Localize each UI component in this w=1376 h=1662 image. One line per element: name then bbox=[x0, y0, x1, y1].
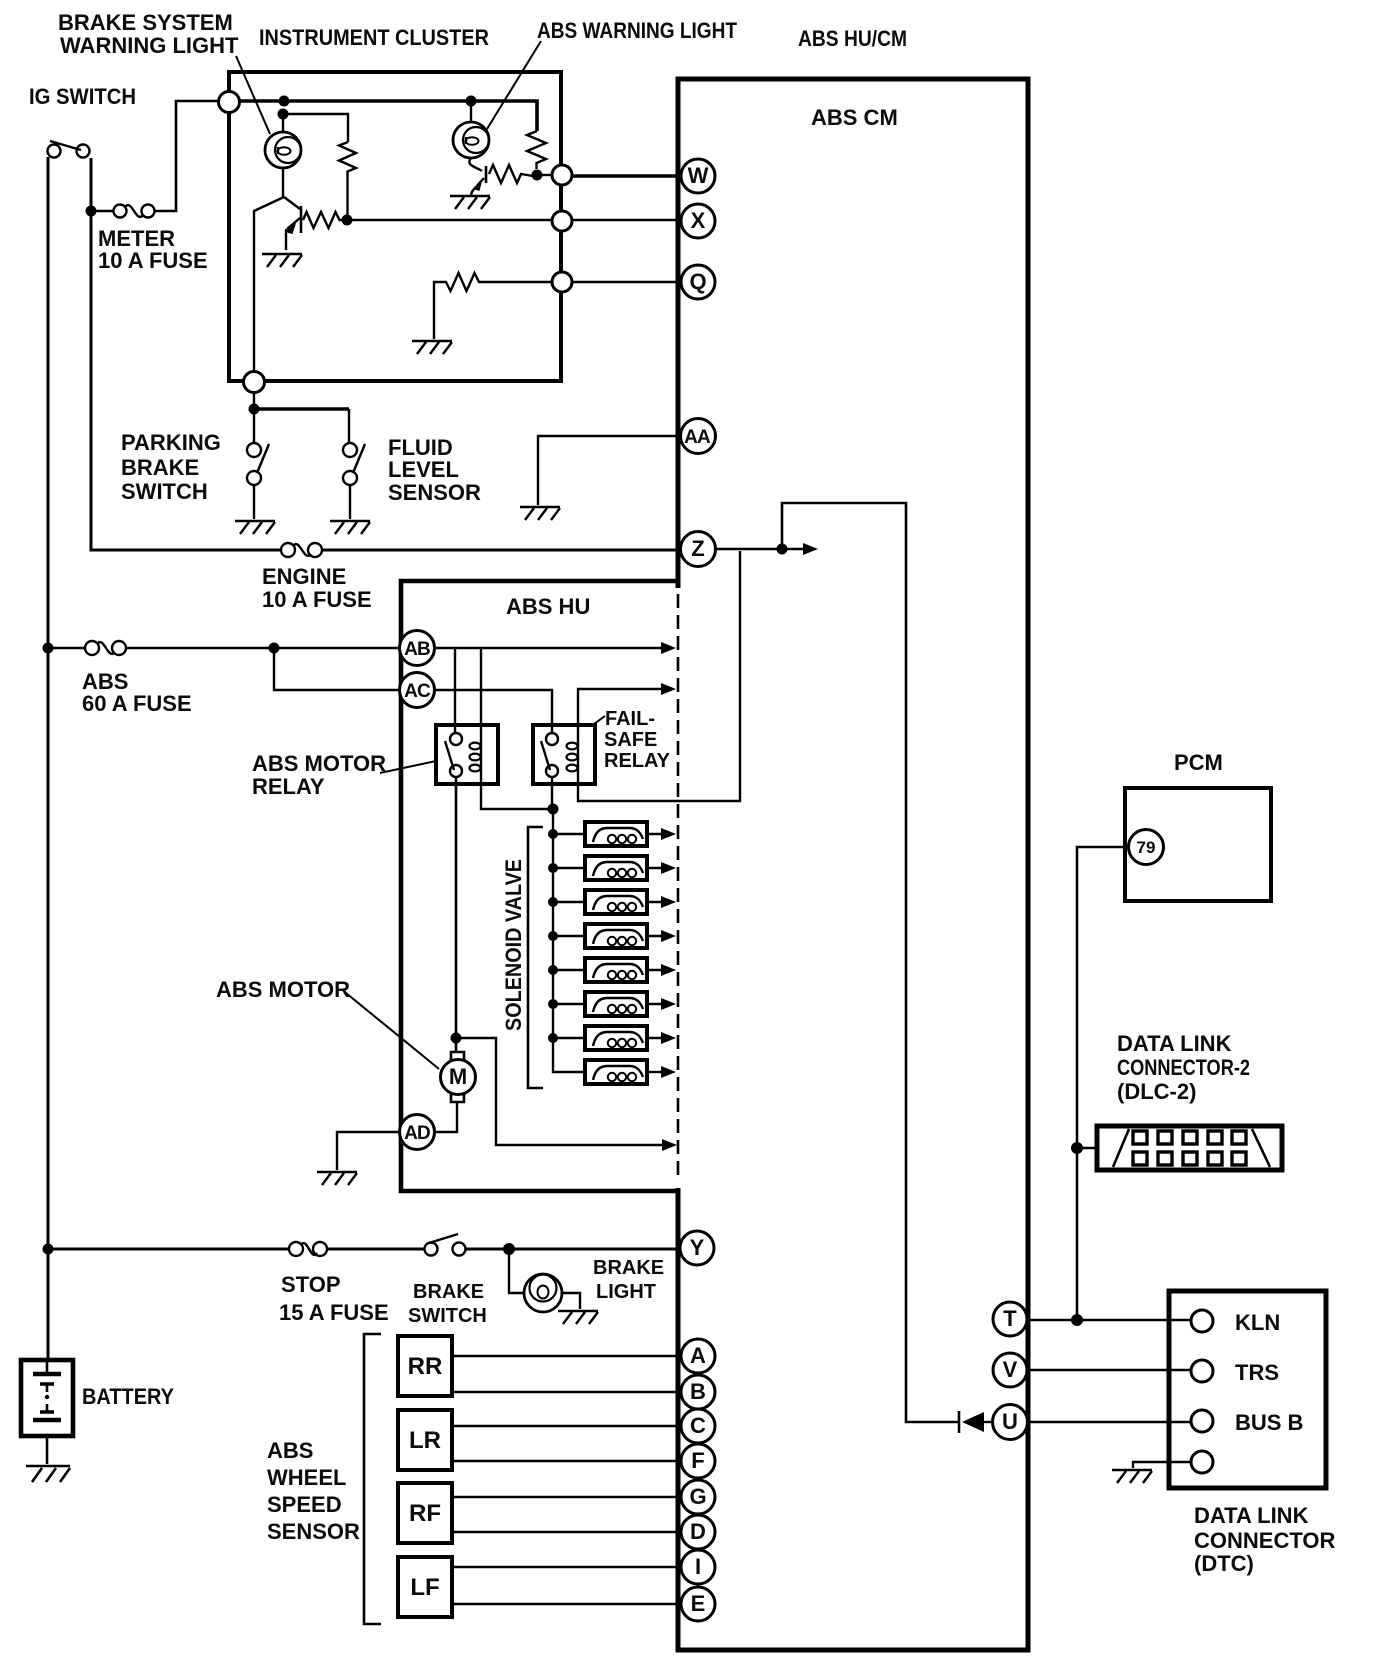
terminal Z bbox=[681, 532, 716, 567]
diode to U bbox=[958, 1411, 961, 1433]
boundary dashed ABS HU/CM bbox=[677, 594, 680, 1180]
node stop fuse junction bbox=[43, 1244, 54, 1255]
terminal circle cluster feed bbox=[219, 92, 240, 113]
svg-text:D: D bbox=[690, 1519, 706, 1544]
svg-text:ABS MOTOR: ABS MOTOR bbox=[252, 751, 386, 776]
svg-text:ABS MOTOR: ABS MOTOR bbox=[216, 977, 350, 1002]
solenoid valve 1 bbox=[548, 829, 558, 839]
node X wire junction bbox=[342, 215, 353, 226]
engine 10A fuse bbox=[281, 543, 295, 557]
svg-text:RELAY: RELAY bbox=[604, 750, 671, 772]
ground AD bbox=[317, 1172, 357, 1185]
svg-text:STOP: STOP bbox=[281, 1272, 341, 1297]
stop 15A fuse bbox=[289, 1242, 303, 1256]
svg-text:BRAKE: BRAKE bbox=[413, 1281, 484, 1303]
terminal circle cluster X bbox=[552, 211, 572, 231]
pointer ABS motor bbox=[346, 993, 439, 1069]
wire Z junction up and over to U diode bbox=[782, 503, 959, 1422]
wire T to KLN bbox=[1027, 1319, 1191, 1321]
svg-text:PARKING: PARKING bbox=[121, 430, 221, 455]
wire to left shunt resistor bbox=[283, 114, 348, 142]
data link connector DTC box bbox=[1169, 1291, 1326, 1488]
svg-text:TRS: TRS bbox=[1235, 1360, 1279, 1385]
node ABS 60A junction bbox=[43, 643, 54, 654]
svg-text:LF: LF bbox=[410, 1574, 439, 1601]
svg-text:10 A FUSE: 10 A FUSE bbox=[262, 587, 372, 612]
meter 10A fuse bbox=[86, 206, 97, 217]
svg-text:10 A FUSE: 10 A FUSE bbox=[98, 248, 208, 273]
svg-text:LIGHT: LIGHT bbox=[596, 1281, 656, 1303]
ABS motor relay bbox=[436, 725, 498, 784]
wire motor branch to arrow bbox=[456, 1038, 663, 1145]
svg-text:Y: Y bbox=[690, 1235, 705, 1260]
terminal 79 bbox=[1129, 830, 1164, 865]
wire relay1 coil return bbox=[481, 784, 553, 809]
terminal V bbox=[993, 1353, 1027, 1387]
svg-text:W: W bbox=[688, 163, 709, 188]
svg-text:BRAKE SYSTEM: BRAKE SYSTEM bbox=[58, 10, 233, 35]
terminal circle cluster Q bbox=[552, 272, 572, 292]
svg-text:ABS WARNING LIGHT: ABS WARNING LIGHT bbox=[537, 18, 737, 43]
svg-text:RELAY: RELAY bbox=[252, 774, 325, 799]
node motor branch bbox=[451, 1033, 462, 1044]
terminal AC bbox=[400, 673, 435, 708]
ground AA bbox=[520, 507, 560, 520]
terminal circle cluster W bbox=[552, 165, 572, 185]
ground DTC bbox=[1112, 1470, 1152, 1483]
node T wire junction bbox=[1071, 1314, 1083, 1326]
bracket solenoid valves bbox=[528, 827, 543, 1088]
terminal A bbox=[681, 1339, 715, 1373]
svg-text:AC: AC bbox=[404, 681, 431, 702]
node DLC-2 junction bbox=[1071, 1142, 1083, 1154]
terminal X bbox=[681, 204, 715, 238]
wire X line inside cluster bbox=[347, 219, 681, 221]
svg-text:ABS: ABS bbox=[267, 1438, 313, 1463]
wire solenoid bus bbox=[553, 809, 585, 1072]
wire IG rail to engine fuse bbox=[91, 158, 681, 550]
ground transistor emitter bbox=[262, 254, 302, 267]
terminal G bbox=[681, 1480, 715, 1514]
wheel sensor LR bbox=[398, 1410, 452, 1470]
terminal I bbox=[681, 1550, 715, 1584]
wire relay1 switch pin bbox=[454, 648, 456, 733]
wheel sensor LF bbox=[398, 1557, 452, 1617]
pin TRS bbox=[1191, 1360, 1213, 1382]
svg-text:U: U bbox=[1002, 1409, 1018, 1434]
instrument cluster box bbox=[229, 72, 561, 381]
wire LF to I E bbox=[452, 1567, 681, 1604]
wire junction to DLC-2 bbox=[1077, 1147, 1097, 1150]
svg-text:X: X bbox=[691, 208, 706, 233]
wire Z to junction with arrow bbox=[716, 548, 806, 551]
ground parking brake switch bbox=[235, 521, 275, 534]
resistor left shunt bbox=[339, 142, 356, 217]
svg-text:V: V bbox=[1003, 1357, 1018, 1382]
resistor right shunt bbox=[527, 131, 546, 169]
svg-text:CONNECTOR: CONNECTOR bbox=[1194, 1528, 1335, 1553]
terminal AB bbox=[400, 631, 435, 666]
wire V to TRS bbox=[1027, 1369, 1191, 1371]
svg-text:60 A FUSE: 60 A FUSE bbox=[82, 691, 192, 716]
wire relay1 switch to motor bbox=[455, 777, 458, 1052]
pin ground bbox=[1191, 1451, 1213, 1473]
pin KLN bbox=[1191, 1310, 1213, 1332]
wire battery rail bbox=[47, 157, 50, 1360]
svg-text:M: M bbox=[449, 1064, 467, 1089]
PCM box bbox=[1125, 788, 1271, 901]
ground Q resistor bbox=[412, 341, 452, 354]
wire AC inside HU bbox=[435, 690, 552, 733]
resistor ABS lamp base bbox=[489, 165, 533, 183]
battery bbox=[21, 1360, 73, 1436]
svg-text:I: I bbox=[695, 1554, 701, 1579]
solenoid valve 4 bbox=[548, 931, 558, 941]
lamp brake light bbox=[524, 1274, 562, 1312]
svg-text:BRAKE: BRAKE bbox=[121, 455, 199, 480]
svg-text:BUS B: BUS B bbox=[1235, 1410, 1303, 1435]
wire AB inside HU with arrow bbox=[435, 647, 661, 650]
wire Q to ABS CM bbox=[572, 281, 681, 283]
svg-text:SENSOR: SENSOR bbox=[388, 480, 481, 505]
svg-text:AB: AB bbox=[404, 639, 430, 660]
svg-text:AA: AA bbox=[684, 427, 711, 448]
terminal circle cluster bottom bbox=[244, 372, 265, 393]
ABS HU box bbox=[401, 581, 676, 1191]
svg-text:C: C bbox=[690, 1413, 706, 1438]
node ABS lamp junction bbox=[532, 170, 543, 181]
terminal B bbox=[681, 1375, 715, 1409]
solenoid valve 3 bbox=[548, 897, 558, 907]
wire stop fuse brake switch Y bbox=[48, 1248, 681, 1251]
svg-text:PCM: PCM bbox=[1174, 750, 1223, 775]
node brake light junction bbox=[503, 1243, 515, 1255]
fail-safe relay bbox=[533, 725, 595, 784]
svg-text:DATA LINK: DATA LINK bbox=[1117, 1031, 1232, 1056]
svg-text:WHEEL: WHEEL bbox=[267, 1465, 346, 1490]
svg-text:Q: Q bbox=[689, 269, 706, 294]
svg-text:Z: Z bbox=[691, 536, 704, 561]
wire RR to A B bbox=[452, 1356, 681, 1392]
wire cluster supply bus bbox=[239, 101, 537, 131]
node AC branch junction bbox=[269, 643, 280, 654]
terminal W bbox=[681, 159, 715, 193]
terminal E bbox=[681, 1587, 715, 1621]
lamp ABS warning light bbox=[466, 96, 477, 107]
node parking brake junction bbox=[253, 392, 255, 443]
wheel sensor RR bbox=[398, 1336, 452, 1396]
ground battery bbox=[26, 1466, 70, 1482]
wire W to ABS CM bbox=[572, 174, 681, 178]
brake switch bbox=[425, 1243, 438, 1256]
wire to fluid level sensor bbox=[254, 407, 349, 411]
svg-text:B: B bbox=[690, 1379, 706, 1404]
wire W line inside cluster bbox=[542, 174, 553, 176]
DLC-2 connector bbox=[1097, 1126, 1282, 1170]
lamp brake system warning light bbox=[282, 119, 284, 132]
solenoid valve 7 bbox=[548, 1033, 558, 1043]
solenoid valve 8 bbox=[647, 1071, 661, 1073]
svg-text:79: 79 bbox=[1137, 838, 1156, 857]
wire RF to G D bbox=[452, 1497, 681, 1532]
ground brake light bbox=[558, 1311, 598, 1324]
wire lamp to transistor bbox=[282, 168, 284, 197]
svg-text:15 A FUSE: 15 A FUSE bbox=[279, 1300, 389, 1325]
ABS motor M bbox=[451, 1052, 464, 1102]
solenoid valve 2 bbox=[548, 863, 558, 873]
wire to brake light bbox=[509, 1249, 524, 1293]
svg-text:LEVEL: LEVEL bbox=[388, 457, 459, 482]
svg-text:SOLENOID VALVE: SOLENOID VALVE bbox=[501, 859, 526, 1031]
resistor transistor base bbox=[303, 212, 345, 228]
node solenoid bus top bbox=[548, 804, 559, 815]
pointer ABS warning light bbox=[487, 41, 541, 129]
svg-text:(DTC): (DTC) bbox=[1194, 1551, 1254, 1576]
svg-text:KLN: KLN bbox=[1235, 1310, 1280, 1335]
terminal T bbox=[993, 1302, 1027, 1336]
svg-text:SWITCH: SWITCH bbox=[121, 479, 208, 504]
fluid level sensor switch bbox=[343, 443, 357, 457]
svg-text:SWITCH: SWITCH bbox=[408, 1305, 487, 1327]
svg-text:DATA LINK: DATA LINK bbox=[1194, 1503, 1309, 1528]
wire DTC ground bbox=[1133, 1462, 1191, 1468]
resistor Q line bbox=[434, 273, 552, 339]
wire AA with ground bbox=[538, 436, 681, 505]
svg-text:RF: RF bbox=[409, 1500, 441, 1527]
wire PCM 79 to DLC junctions bbox=[1077, 847, 1129, 1320]
wire U to BUS B bbox=[1027, 1421, 1191, 1423]
svg-text:IG SWITCH: IG SWITCH bbox=[29, 84, 136, 109]
svg-text:F: F bbox=[691, 1448, 704, 1473]
svg-text:AD: AD bbox=[404, 1123, 430, 1144]
svg-text:ABS HU/CM: ABS HU/CM bbox=[798, 26, 907, 51]
bracket wheel speed sensors bbox=[364, 1334, 381, 1624]
wire failsafe coil return to Z bbox=[578, 551, 740, 801]
wire failsafe switch return bbox=[551, 777, 553, 809]
svg-text:WARNING LIGHT: WARNING LIGHT bbox=[60, 33, 239, 58]
wire battery to ground bbox=[46, 1436, 49, 1464]
IG switch bbox=[48, 145, 61, 158]
solenoid valve 6 bbox=[548, 999, 558, 1009]
node bus junction brake light bbox=[279, 96, 290, 107]
wheel sensor RF bbox=[398, 1483, 452, 1543]
svg-text:BATTERY: BATTERY bbox=[82, 1384, 174, 1409]
ground fluid level sensor bbox=[330, 521, 370, 534]
terminal Q bbox=[681, 265, 715, 299]
terminal AA bbox=[681, 419, 716, 454]
svg-text:FAIL-: FAIL- bbox=[605, 708, 655, 730]
parking brake switch bbox=[247, 443, 261, 457]
terminal D bbox=[681, 1515, 715, 1549]
svg-text:SENSOR: SENSOR bbox=[267, 1519, 360, 1544]
ABS HU/CM box bbox=[678, 79, 1028, 1650]
wire LR to C F bbox=[452, 1426, 681, 1461]
solenoid valve 5 bbox=[548, 965, 558, 975]
wire AC feed bbox=[274, 648, 400, 690]
svg-text:G: G bbox=[689, 1484, 706, 1509]
svg-text:T: T bbox=[1003, 1306, 1017, 1331]
terminal U bbox=[993, 1405, 1028, 1440]
svg-text:A: A bbox=[690, 1343, 706, 1368]
svg-text:E: E bbox=[691, 1591, 706, 1616]
wire AD to ground bbox=[337, 1132, 400, 1170]
svg-text:ENGINE: ENGINE bbox=[262, 564, 346, 589]
pointer ABS motor relay bbox=[380, 761, 436, 773]
svg-text:SAFE: SAFE bbox=[604, 729, 657, 751]
svg-text:BRAKE: BRAKE bbox=[593, 1257, 664, 1279]
pin BUS B bbox=[1191, 1410, 1213, 1432]
transistor brake warning driver bbox=[300, 206, 303, 233]
wire motor to AD bbox=[436, 1102, 457, 1132]
wire failsafe coil to arrow bbox=[578, 689, 661, 733]
pointer fail-safe relay bbox=[594, 716, 605, 724]
svg-text:CONNECTOR-2: CONNECTOR-2 bbox=[1117, 1055, 1250, 1080]
transistor ABS lamp driver bbox=[469, 158, 482, 171]
svg-text:RR: RR bbox=[408, 1353, 443, 1380]
svg-text:LR: LR bbox=[409, 1427, 441, 1454]
wire parking brake sense bbox=[254, 197, 284, 371]
svg-text:INSTRUMENT CLUSTER: INSTRUMENT CLUSTER bbox=[259, 25, 489, 50]
ground ABS lamp driver bbox=[450, 196, 490, 209]
terminal C bbox=[681, 1409, 715, 1443]
wire brake light to ground bbox=[562, 1293, 580, 1309]
svg-text:(DLC-2): (DLC-2) bbox=[1117, 1079, 1196, 1104]
svg-text:ABS HU: ABS HU bbox=[506, 594, 590, 619]
svg-text:SPEED: SPEED bbox=[267, 1492, 342, 1517]
svg-text:ABS CM: ABS CM bbox=[811, 105, 898, 130]
terminal AD bbox=[400, 1115, 435, 1150]
terminal Y bbox=[680, 1231, 714, 1265]
ABS 60A fuse bbox=[48, 647, 400, 650]
pointer brake system warning light bbox=[236, 56, 270, 134]
terminal F bbox=[681, 1444, 715, 1478]
